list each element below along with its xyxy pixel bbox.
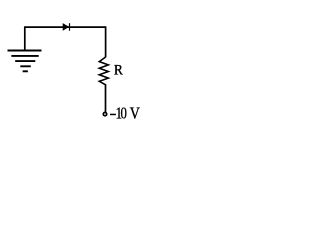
resistor R — [99, 57, 108, 85]
diode — [63, 23, 70, 31]
wire right vertical lower — [105, 84, 107, 112]
wire top horizontal — [24, 26, 106, 28]
label -10 V digit 0 — [121, 105, 127, 123]
label -10 V letter V — [130, 105, 140, 123]
terminal node -10 V — [103, 112, 106, 115]
wire right vertical upper — [105, 26, 107, 57]
svg-text:V: V — [130, 105, 140, 123]
label -10 V digit 1 — [116, 105, 122, 123]
svg-text:0: 0 — [121, 105, 127, 123]
label -10 V minus sign — [110, 113, 116, 115]
label R — [114, 62, 123, 79]
ground — [8, 27, 42, 71]
svg-text:R: R — [114, 62, 123, 79]
